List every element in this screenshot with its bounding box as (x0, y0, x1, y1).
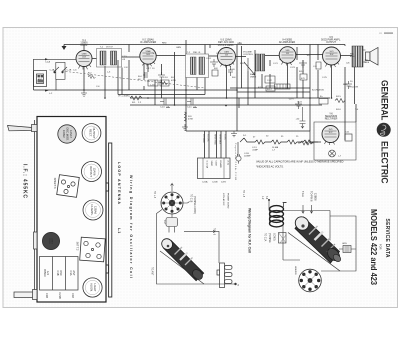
svg-text:FOR: FOR (379, 244, 383, 250)
svg-text:TO L-3: TO L-3 (153, 191, 155, 199)
svg-text:R-15: R-15 (336, 96, 342, 98)
svg-text:35Z5: 35Z5 (329, 129, 333, 131)
svg-text:L.1: L.1 (117, 228, 121, 233)
svg-text:455KC: 455KC (43, 269, 47, 277)
svg-text:120V AC-DC: 120V AC-DC (222, 193, 225, 206)
svg-text:C21B: C21B (58, 292, 62, 299)
svg-text:BLUE: BLUE (350, 56, 356, 58)
svg-text:CONV: CONV (48, 238, 50, 244)
svg-text:C26: C26 (346, 63, 349, 65)
svg-text:470K: 470K (171, 80, 177, 82)
svg-text:12AV6: 12AV6 (93, 168, 97, 176)
svg-text:OUTPUT: OUTPUT (326, 41, 336, 44)
svg-text:C-19: C-19 (216, 53, 222, 55)
svg-text:MODELS 422 and 423: MODELS 422 and 423 (369, 209, 378, 285)
svg-text:TO OSC: TO OSC (207, 134, 209, 142)
svg-text:(TUNING: (TUNING (268, 233, 270, 243)
svg-text:BOARD: BOARD (219, 161, 222, 169)
svg-text:120MF: 120MF (244, 156, 251, 158)
svg-text:C1A: C1A (69, 270, 73, 275)
svg-text:12BE6: 12BE6 (314, 193, 317, 201)
svg-text:C21B: C21B (215, 161, 217, 167)
svg-text:I.F.AMPL.: I.F.AMPL. (90, 204, 94, 216)
svg-text:.05MF: .05MF (252, 150, 259, 152)
svg-text:R-13: R-13 (258, 87, 264, 89)
svg-text:C-11: C-11 (187, 107, 192, 109)
svg-text:*117V: *117V (288, 99, 294, 101)
svg-text:C-21: C-21 (273, 63, 279, 65)
svg-text:R-14: R-14 (299, 71, 305, 73)
svg-text:Wiring Diagram for R.F. Coil: Wiring Diagram for R.F. Coil (248, 208, 252, 253)
svg-text:MIKE: MIKE (365, 62, 370, 64)
svg-text:I.F. = 455KC: I.F. = 455KC (118, 96, 131, 98)
svg-text:C21B: C21B (212, 182, 218, 184)
svg-text:OUTPUT: OUTPUT (92, 127, 96, 138)
svg-text:Capacitor C21A-C21B: Capacitor C21A-C21B (234, 143, 237, 181)
svg-text:SKT T.2: SKT T.2 (76, 242, 79, 251)
svg-text:TO B+: TO B+ (224, 134, 226, 141)
svg-text:470K: 470K (188, 119, 194, 121)
svg-text:SPKR BLK: SPKR BLK (219, 134, 221, 145)
svg-text:OSC.MOD.: OSC.MOD. (66, 127, 70, 141)
svg-text:COND): COND) (273, 233, 275, 241)
svg-text:12BE6: 12BE6 (51, 238, 53, 245)
svg-text:C1B: C1B (45, 293, 49, 298)
svg-text:I.F. AMPLIFIER: I.F. AMPLIFIER (140, 41, 157, 44)
svg-text:2ND I.F.: 2ND I.F. (193, 52, 201, 54)
svg-text:SERVICE DATA: SERVICE DATA (384, 219, 390, 258)
svg-text:R-12: R-12 (267, 89, 273, 91)
svg-text:GRN: GRN (176, 47, 181, 49)
svg-text:(TUNING COND): (TUNING COND) (193, 196, 195, 214)
svg-text:C21A: C21A (202, 181, 208, 184)
svg-text:12SA7: 12SA7 (69, 130, 73, 139)
svg-text:12BA6: 12BA6 (94, 206, 98, 215)
svg-text:RED: RED (162, 43, 167, 45)
svg-text:T.4-A: T.4-A (301, 191, 304, 197)
svg-text:1ST A.F. AMPL.: 1ST A.F. AMPL. (218, 44, 235, 47)
svg-text:RECT.: RECT. (89, 129, 93, 137)
svg-text:C-16: C-16 (163, 77, 169, 79)
svg-text:R-10: R-10 (240, 63, 246, 65)
svg-text:12BE6: 12BE6 (81, 54, 86, 56)
svg-text:TO PIN 6: TO PIN 6 (310, 191, 313, 202)
svg-text:R-16: R-16 (336, 109, 342, 111)
svg-text:1ST I.F.: 1ST I.F. (106, 47, 114, 49)
svg-text:C-15: C-15 (122, 56, 128, 58)
svg-text:12BA6: 12BA6 (145, 50, 150, 53)
svg-text:CONTROL: CONTROL (243, 54, 254, 56)
svg-text:O-C21A: O-C21A (206, 161, 209, 169)
svg-text:L-13: L-13 (150, 85, 155, 87)
svg-text:TO L-5: TO L-5 (242, 190, 244, 198)
svg-text:CONV.: CONV. (80, 44, 88, 47)
svg-text:I.F.: 455KC: I.F.: 455KC (22, 164, 28, 198)
svg-text:TO L-5: TO L-5 (213, 228, 215, 236)
svg-text:POWER CORD: POWER CORD (227, 193, 229, 209)
svg-text:50C5: 50C5 (329, 51, 333, 53)
svg-text:12AV6: 12AV6 (224, 51, 229, 54)
svg-text:1MEG: 1MEG (250, 77, 256, 79)
svg-text:RED: RED (343, 84, 348, 86)
svg-text:TO C1A: TO C1A (264, 233, 267, 242)
svg-text:ALIGN.: ALIGN. (90, 283, 94, 292)
svg-text:C18: C18 (71, 293, 75, 298)
svg-text:C-24: C-24 (297, 102, 303, 104)
svg-text:C1B: C1B (56, 270, 60, 275)
svg-text:TO ANT: TO ANT (151, 267, 154, 276)
svg-text:C-20: C-20 (230, 69, 236, 71)
svg-text:SPKR: SPKR (210, 161, 212, 167)
svg-text:OUTPUT: OUTPUT (89, 166, 93, 177)
svg-text:120V: 120V (221, 182, 227, 184)
svg-text:LIGHT: LIGHT (93, 284, 97, 292)
svg-text:C-22: C-22 (267, 80, 273, 82)
svg-text:C-25: C-25 (322, 77, 328, 79)
svg-text:C-1B: C-1B (67, 70, 72, 72)
svg-text:TO GRID: TO GRID (202, 134, 204, 143)
svg-text:AF AMPLIFIER: AF AMPLIFIER (279, 41, 295, 44)
svg-text:Wiring Diagram for Oscillator: Wiring Diagram for Oscillator Coil (129, 175, 133, 278)
svg-text:HEATER: HEATER (294, 266, 297, 275)
svg-text:(T-2): (T-2) (227, 161, 229, 166)
svg-text:GRN: GRN (342, 243, 347, 245)
svg-text:TO C1B: TO C1B (190, 194, 192, 203)
svg-text:C-1A: C-1A (50, 69, 55, 72)
svg-text:C-10: C-10 (160, 107, 166, 109)
svg-text:*INDICATES AC VOLTS.: *INDICATES AC VOLTS. (256, 166, 284, 169)
svg-text:YELLOW: YELLOW (349, 87, 359, 89)
svg-text:SPKR RED: SPKR RED (214, 134, 216, 145)
svg-text:C-23: C-23 (290, 67, 296, 69)
svg-text:ANT: ANT (38, 78, 43, 81)
svg-text:B-CHASSIS: B-CHASSIS (312, 89, 324, 92)
svg-text:RECTIFIER: RECTIFIER (325, 118, 338, 121)
svg-text:CONV.: CONV. (62, 130, 66, 139)
svg-text:50B5: 50B5 (286, 50, 290, 52)
svg-text:SPKR T.3: SPKR T.3 (53, 178, 56, 189)
svg-text:C-17: C-17 (146, 68, 152, 70)
svg-text:ELECTRIC: ELECTRIC (379, 141, 390, 184)
svg-text:GENERAL: GENERAL (379, 80, 390, 121)
svg-text:C-1A: C-1A (45, 61, 51, 64)
svg-text:VALUE OF ALL CAPACITORS AR: VALUE OF ALL CAPACITORS ARE IN MF UNLESS… (256, 161, 344, 164)
svg-text:C-18: C-18 (206, 58, 212, 60)
